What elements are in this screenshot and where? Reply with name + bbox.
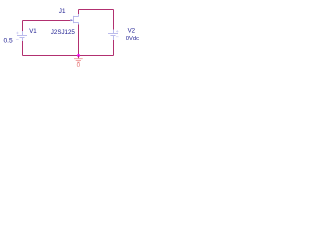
J1 gate arrow xyxy=(71,19,74,21)
wire top rail xyxy=(79,9,114,11)
wire left vertical: down to V1 + terminal xyxy=(22,21,24,32)
wire source down to rail xyxy=(78,25,80,56)
voltage source V1 xyxy=(17,31,27,41)
svg-text:V1: V1 xyxy=(29,28,37,35)
wire V2 bottom to rail xyxy=(113,40,115,56)
wire gate: V1 top to J1 gate xyxy=(23,20,71,22)
wire bottom rail xyxy=(23,55,114,57)
svg-text:V2: V2 xyxy=(128,28,136,35)
ground stub xyxy=(78,56,80,59)
svg-text:J1: J1 xyxy=(59,8,66,15)
wire V2 top xyxy=(113,10,115,30)
transistor J1 (P-JFET) xyxy=(74,14,79,25)
svg-text:0Vdc: 0Vdc xyxy=(126,36,139,42)
wire V1 bottom to rail xyxy=(22,41,24,56)
wire drain up to top rail xyxy=(78,10,80,15)
junction dot at source/rail/ground xyxy=(77,54,80,57)
voltage source V2 xyxy=(108,30,118,41)
svg-text:0.5: 0.5 xyxy=(4,38,13,45)
ground 0 symbol xyxy=(74,59,83,62)
svg-text:J2SJ125: J2SJ125 xyxy=(51,29,76,36)
